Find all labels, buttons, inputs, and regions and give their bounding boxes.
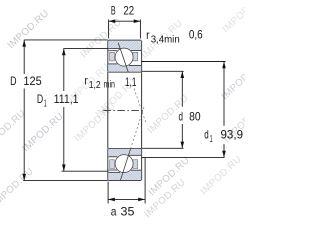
svg-text:1,1: 1,1	[125, 75, 137, 89]
svg-text:r: r	[146, 28, 149, 42]
svg-text:93,9: 93,9	[221, 127, 244, 141]
svg-text:B: B	[111, 4, 116, 18]
svg-text:1: 1	[44, 99, 47, 110]
svg-text:1,2: 1,2	[89, 80, 101, 91]
svg-text:D: D	[37, 92, 44, 106]
svg-text:35: 35	[121, 205, 135, 219]
svg-text:d: d	[179, 109, 184, 123]
svg-text:min: min	[104, 80, 115, 91]
svg-text:125: 125	[23, 74, 42, 88]
svg-text:0,6: 0,6	[189, 28, 203, 42]
svg-text:1: 1	[210, 134, 213, 145]
svg-text:d: d	[204, 127, 209, 141]
svg-text:a: a	[111, 205, 117, 219]
svg-text:111,1: 111,1	[54, 92, 79, 106]
svg-text:22: 22	[123, 4, 134, 18]
svg-text:3,4min: 3,4min	[151, 34, 180, 45]
svg-text:80: 80	[189, 109, 201, 123]
svg-text:D: D	[10, 74, 17, 88]
svg-text:r: r	[84, 74, 87, 88]
